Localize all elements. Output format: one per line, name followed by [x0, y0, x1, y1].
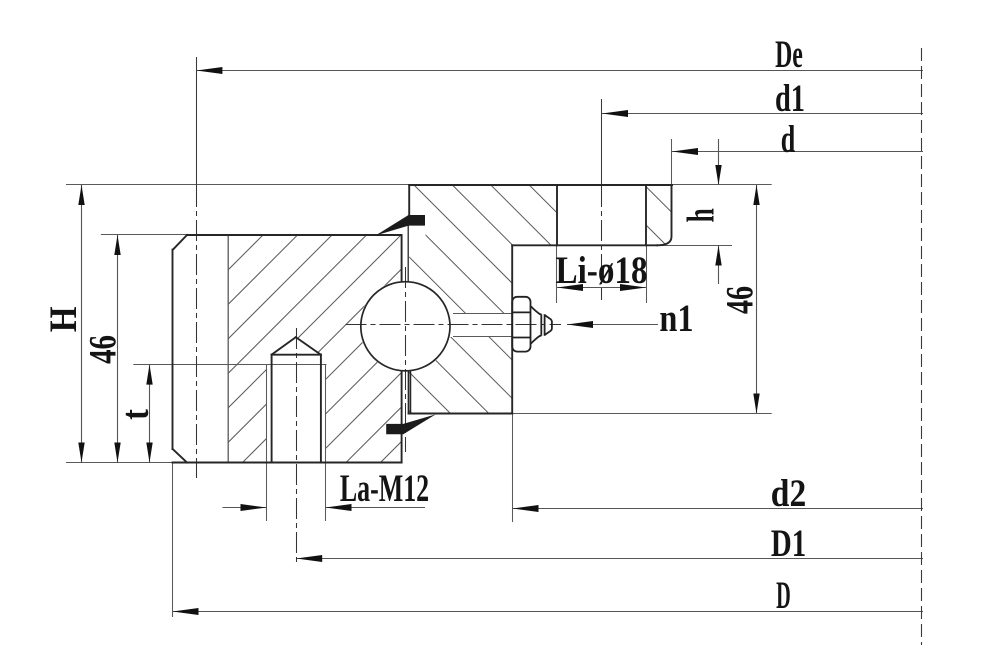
svg-text:n1: n1 — [659, 296, 693, 340]
svg-text:d1: d1 — [775, 78, 805, 120]
svg-text:46: 46 — [81, 335, 124, 364]
svg-text:Li-ø18: Li-ø18 — [555, 249, 647, 292]
svg-text:De: De — [775, 32, 803, 75]
svg-text:d2: d2 — [771, 472, 806, 515]
svg-text:D1: D1 — [771, 522, 806, 565]
svg-text:H: H — [42, 306, 85, 332]
svg-text:t: t — [113, 409, 157, 420]
svg-text:D: D — [776, 573, 791, 617]
svg-text:La-M12: La-M12 — [340, 467, 429, 511]
svg-text:h: h — [680, 208, 723, 222]
svg-text:d: d — [781, 118, 796, 161]
svg-text:46: 46 — [719, 286, 761, 314]
